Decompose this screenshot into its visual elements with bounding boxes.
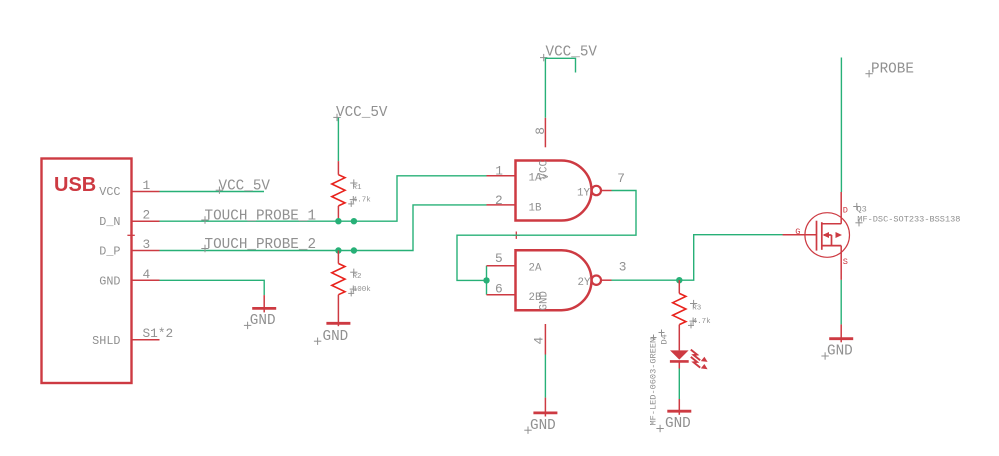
U1A pin 2 stub [487, 204, 516, 206]
svg-text:4: 4 [532, 337, 547, 345]
svg-text:2: 2 [495, 193, 503, 208]
USB pin 4 stub [132, 279, 160, 281]
wire net TOUCH_PROBE_1 [160, 176, 487, 221]
svg-text:VCC: VCC [99, 185, 120, 199]
wire net VCC_5V from USB pin1 [160, 191, 265, 193]
svg-text:TOUCH_PROBE_2: TOUCH_PROBE_2 [205, 237, 317, 253]
svg-text:GND: GND [665, 416, 691, 432]
ground symbol at USB pin4 [252, 295, 276, 312]
nand gate U1A body [516, 161, 592, 221]
svg-text:3: 3 [143, 237, 151, 252]
pin number 2 [495, 193, 503, 208]
label MF-DSC-SOT233-BSS138 [857, 215, 960, 225]
U1A pin 1 stub [487, 175, 516, 177]
svg-text:GND: GND [323, 329, 349, 345]
junction dot R2/TOUCH_PROBE_2 [335, 247, 341, 253]
wire GND net from USB pin4 [160, 280, 265, 295]
USB pin number S1*2 [143, 326, 174, 341]
gate name arrow marker [543, 173, 549, 184]
svg-text:>: > [543, 173, 549, 184]
label cross PROBE [865, 70, 872, 77]
label cross VCC_5V (R1) [333, 114, 340, 121]
svg-text:4.7k: 4.7k [353, 196, 372, 204]
U1B output bubble [592, 276, 601, 285]
wire Q3 source to ground [840, 280, 842, 325]
svg-text:2Y: 2Y [578, 277, 591, 289]
LED emission arrow 1 [691, 350, 708, 362]
USB pin name D_P [99, 245, 120, 259]
svg-text:D_P: D_P [99, 245, 120, 259]
svg-text:4: 4 [143, 267, 151, 282]
svg-text:GND: GND [530, 418, 556, 434]
label GND (Q3) [827, 344, 853, 360]
nand gate U1B body [516, 250, 592, 310]
resistor R3 [673, 280, 686, 350]
svg-text:1B: 1B [529, 202, 542, 214]
supply VCC_5V above IC: label [546, 45, 598, 61]
gate label 1B [529, 202, 542, 214]
svg-text:MF-LED-0603-GREEN: MF-LED-0603-GREEN [649, 338, 659, 426]
gate label 2B [529, 292, 542, 304]
USB pin number 4 [143, 267, 151, 282]
pin number 7 [617, 171, 625, 186]
USB pin number 2 [143, 208, 151, 223]
junction dot R1/TOUCH_PROBE_1 [335, 218, 341, 224]
gate label 2A [529, 262, 542, 274]
USB pin name D_N [99, 215, 120, 229]
svg-text:VCC_5V: VCC_5V [219, 179, 271, 195]
wire IC pin4 to ground [544, 355, 546, 398]
label GND (R2) [323, 329, 349, 345]
pin number 8 (rotated) [533, 127, 548, 135]
label TOUCH_PROBE_1 [205, 208, 317, 224]
wire PROBE net [840, 58, 842, 193]
LED emission arrow 2 [691, 357, 708, 369]
pin number 3 [619, 260, 627, 275]
label cross GND (Q3) [821, 352, 828, 359]
USB pin name SHLD [92, 334, 120, 348]
supply VCC_5V above R1: label [336, 105, 388, 121]
gate label 1Y [577, 187, 590, 199]
label cross GND (IC pin4) [524, 427, 531, 434]
label cross 4.7k (R1) [348, 196, 357, 207]
label R2 [353, 273, 362, 281]
label cross R3 [690, 300, 697, 307]
junction dot R3 branch [676, 277, 682, 283]
ground symbol Q3 source [829, 324, 853, 342]
wire gate of Q3 [783, 234, 798, 236]
IC pin 8 stub [544, 118, 546, 148]
svg-text:TOUCH_PROBE_1: TOUCH_PROBE_1 [205, 208, 317, 224]
feedback wire U1A out to U1B inputs [457, 191, 636, 281]
svg-text:GND: GND [827, 344, 853, 360]
svg-text:S: S [843, 257, 848, 267]
label cross 4.7k (R3) [688, 318, 697, 329]
svg-text:G: G [795, 227, 800, 237]
label 4.7k (R3) [693, 318, 712, 326]
svg-text:1Y: 1Y [577, 187, 590, 199]
svg-text:4.7k: 4.7k [693, 318, 712, 326]
label TOUCH_PROBE_2 [205, 237, 317, 253]
mosfet Q3 [783, 192, 850, 280]
USB pin 1 stub [132, 191, 160, 193]
U1B pin 4 stub [544, 324, 546, 355]
USB pin 3 stub [132, 250, 160, 252]
svg-text:PROBE: PROBE [871, 61, 914, 77]
LED D4 [670, 350, 689, 368]
pin number 4 (rotated) [532, 337, 547, 345]
svg-text:SHLD: SHLD [92, 334, 120, 348]
U1B pin 5 stub [487, 265, 516, 267]
label D4 (rotated) [660, 334, 670, 344]
label cross GND (R2) [314, 338, 321, 345]
resistor R2 [332, 251, 345, 327]
label cross MF-LED [651, 335, 657, 341]
label cross Q3 [853, 203, 860, 210]
svg-text:D: D [843, 205, 848, 215]
svg-text:MF-DSC-SOT233-BSS138: MF-DSC-SOT233-BSS138 [857, 215, 960, 225]
label 100k (R2) [353, 286, 372, 294]
svg-text:3: 3 [619, 260, 627, 275]
label cross MF-DSC [855, 219, 862, 226]
gate power label GND (rotated) [539, 291, 551, 310]
label cross VCC_5V (IC) [540, 54, 547, 61]
USB title text [54, 174, 96, 196]
U1A output pin stub [601, 190, 612, 192]
U1A output bubble [592, 186, 601, 195]
gate label 1A [529, 173, 542, 185]
label VCC_5V (USB) [219, 179, 271, 195]
svg-text:GND: GND [250, 313, 276, 329]
ground symbol under R2 [326, 322, 350, 325]
Q3 pin label D [843, 205, 848, 215]
label GND (LED) [665, 416, 691, 432]
wire LED to ground [678, 369, 680, 400]
junction dot TOUCH_PROBE_2 b [351, 247, 357, 253]
USB pin SHLD stub [132, 339, 160, 341]
Q3 pin label S [843, 257, 848, 267]
junction dot TOUCH_PROBE_1 b [351, 218, 357, 224]
gate label 2Y [578, 277, 591, 289]
USB origin cross [127, 232, 134, 239]
svg-text:1: 1 [495, 163, 503, 178]
svg-text:8: 8 [533, 127, 548, 135]
USB pin number 3 [143, 237, 151, 252]
svg-text:S1*2: S1*2 [143, 326, 174, 341]
USB pin 2 stub [132, 220, 160, 222]
label R3 [692, 305, 702, 313]
svg-text:1: 1 [143, 178, 151, 193]
ground symbol IC pin4 [533, 398, 557, 417]
pin number 5 [495, 251, 503, 266]
label Q3 [857, 205, 867, 215]
ground symbol under LED [667, 399, 691, 415]
label cross VCC_5V (USB) [216, 187, 223, 194]
wire VCC_5V to IC pin 8 [545, 58, 575, 118]
resistor R1 [332, 161, 345, 221]
U1B pin 6 stub [487, 294, 516, 296]
svg-text:7: 7 [617, 171, 625, 186]
label 4.7k (R1) [353, 196, 372, 204]
svg-text:GND: GND [99, 274, 120, 288]
USB pin name GND [99, 274, 120, 288]
label cross GND (USB pin4) [244, 322, 251, 329]
wire tying pins 5 and 6 [486, 266, 488, 295]
svg-text:100k: 100k [353, 286, 372, 294]
label PROBE [871, 61, 914, 77]
label cross TOUCH_PROBE_2 [201, 245, 208, 252]
label GND (IC pin4) [530, 418, 556, 434]
svg-text:2A: 2A [529, 262, 542, 274]
USB pin number 1 [143, 178, 151, 193]
USB connector J1 box [42, 159, 132, 384]
svg-text:GND: GND [539, 291, 551, 310]
svg-text:D4: D4 [660, 334, 670, 344]
label R1 [353, 184, 363, 192]
label cross R1 [350, 179, 357, 186]
svg-text:6: 6 [495, 282, 503, 297]
label GND (USB pin4) [250, 313, 276, 329]
wire U1B output net [612, 235, 783, 281]
svg-text:5: 5 [495, 251, 503, 266]
label cross 100k (R2) [348, 286, 357, 297]
svg-text:D_N: D_N [99, 215, 120, 229]
pin number 1 [495, 163, 503, 178]
U1B output pin stub [601, 279, 612, 281]
pin number 6 [495, 282, 503, 297]
svg-text:2: 2 [143, 208, 151, 223]
junction dot pins 5/6 [483, 277, 489, 283]
wire VCC_5V to R1 [337, 118, 339, 161]
USB pin name VCC [99, 185, 120, 199]
label cross GND (LED) [656, 425, 663, 432]
label MF-LED-0603-GREEN (rotated) [649, 338, 659, 426]
gate power label VCC (rotated) [539, 160, 551, 180]
label cross D4 [659, 330, 665, 336]
svg-text:USB: USB [54, 174, 96, 196]
Q3 pin label G [795, 227, 800, 237]
label cross R2 [350, 269, 357, 276]
label cross TOUCH_PROBE_1 [201, 216, 208, 223]
svg-text:VCC_5V: VCC_5V [336, 105, 388, 121]
IC origin cross [513, 232, 520, 239]
wire net TOUCH_PROBE_2 [160, 205, 487, 251]
